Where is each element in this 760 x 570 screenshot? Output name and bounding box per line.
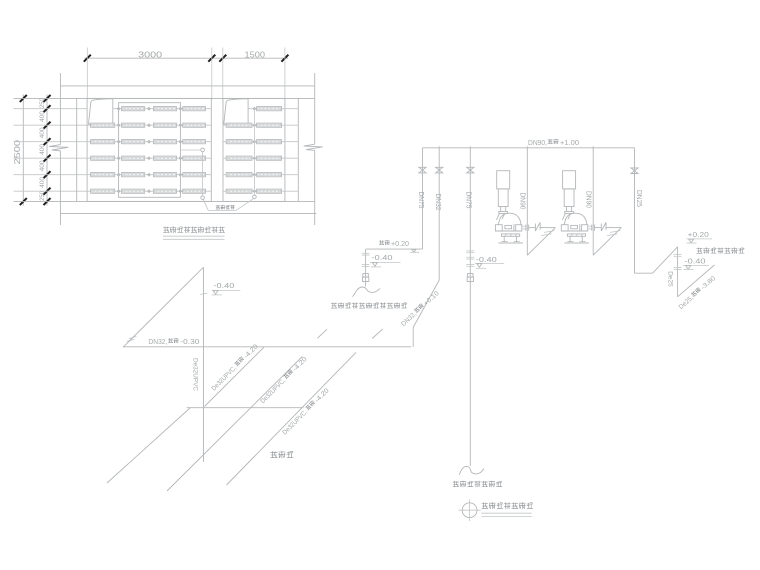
check valve <box>534 224 536 232</box>
svg-text:2500: 2500 <box>13 139 22 164</box>
plan title (cjk) with double underline <box>163 227 169 233</box>
svg-text:400: 400 <box>39 144 46 155</box>
distribution vertical De32UPVC <box>203 267 205 462</box>
label center +0.20 <box>379 240 384 244</box>
extension line <box>284 48 286 100</box>
right aeration panel outline <box>223 98 285 201</box>
blower motor <box>563 171 576 189</box>
label DN32 center +0.10 <box>400 289 441 328</box>
svg-text:De25,: De25, <box>678 294 695 311</box>
left aeration panel outline <box>87 98 211 201</box>
left panel branch vertical with node circles <box>180 149 200 151</box>
system title (cjk) with double underline <box>482 503 488 509</box>
svg-text:DN90: DN90 <box>584 191 591 208</box>
tank bottom wall inner line <box>14 200 315 202</box>
tank top wall outer line <box>60 85 314 87</box>
level mark <box>412 249 416 252</box>
dimension tick <box>44 188 51 195</box>
branch diagonal D3 <box>227 352 357 485</box>
blower outlet flange <box>513 224 515 231</box>
DN32 axon diagonal +0.10 <box>413 280 439 327</box>
blower volute casing <box>564 213 587 225</box>
air inlet corner plate right <box>224 99 248 124</box>
label bio contact oxidation tank (cjk) <box>453 481 459 487</box>
left dimension line 2500 <box>22 95 24 206</box>
extension line <box>222 48 224 100</box>
main air pipe DN90 <box>423 147 635 149</box>
blower base frame <box>502 234 520 236</box>
union joint <box>363 274 368 278</box>
outlet pipe to check valve <box>522 225 526 227</box>
label De32UPVC -4.20 no3 <box>281 387 331 437</box>
break ticks <box>544 231 554 233</box>
svg-text:400: 400 <box>39 127 46 138</box>
svg-text:DN75: DN75 <box>417 192 424 209</box>
label De32UPVC -4.20 no2 <box>259 355 309 405</box>
svg-text:DN32: DN32 <box>434 194 441 211</box>
svg-text:-0.40: -0.40 <box>213 281 234 290</box>
left dimension sub line <box>46 95 48 206</box>
blower base frame <box>567 234 585 236</box>
right wall outer vertical with break <box>314 73 316 144</box>
drain branch DN25 <box>634 148 636 273</box>
valve <box>419 167 426 173</box>
svg-text:400: 400 <box>39 111 46 122</box>
svg-text:De25: De25 <box>666 271 673 287</box>
header pipe center +0.20 <box>366 248 423 250</box>
svg-text:400: 400 <box>39 177 46 188</box>
label De32UPVC -4.20 no1 <box>210 343 260 393</box>
leader lines to label <box>203 199 208 210</box>
flex connection squiggle <box>353 287 380 297</box>
svg-text:DN75: DN75 <box>465 192 472 209</box>
lower horizontal pool line <box>187 407 304 409</box>
valve <box>467 167 474 173</box>
label to sedimentation tank sludge pipe (cjk) <box>697 248 703 253</box>
left wall vertical with break <box>59 73 61 145</box>
diffuser row 6 right panel <box>223 190 298 192</box>
svg-text:-0.40: -0.40 <box>685 257 706 266</box>
label De25 -3.80 <box>677 274 717 311</box>
svg-text:+0.10: +0.10 <box>423 290 441 308</box>
riser pipe DN75 no2 <box>469 148 471 466</box>
drop pipe to contact tank aeration <box>365 249 367 286</box>
svg-text:DN90: DN90 <box>519 193 526 210</box>
valve <box>631 168 638 174</box>
dimension tick <box>20 95 27 102</box>
dimension tick <box>281 55 288 62</box>
diffuser row 2 left panel <box>87 124 211 126</box>
tank bottom wall outer line <box>60 212 316 214</box>
dimension tick <box>20 198 27 205</box>
dimension tick <box>44 138 51 145</box>
label anoxic tank (cjk) <box>271 451 277 457</box>
dimension tick <box>208 55 215 62</box>
branch diagonal D1 <box>205 347 265 407</box>
break ticks on diagonal <box>127 339 135 341</box>
dimension tick <box>44 122 51 129</box>
air inlet corner plate left <box>89 99 113 124</box>
blower discharge riser DN90 <box>526 148 528 255</box>
extension line <box>211 48 213 100</box>
tank top wall inner line <box>14 97 315 99</box>
svg-text:+0.20: +0.20 <box>688 230 709 239</box>
drain drop pipe De25 <box>677 247 679 297</box>
rising diagonal to -0.40 point <box>123 267 203 347</box>
dimension tick <box>84 55 91 62</box>
svg-text:DN32,: DN32, <box>148 339 167 346</box>
dimension tick <box>44 155 51 162</box>
blower neck and flange <box>566 207 568 212</box>
diffuser row 1 right panel <box>248 108 298 110</box>
diffuser row 4 left panel <box>87 157 211 159</box>
junction node ticks on main <box>438 146 440 150</box>
branch diagonal D2 <box>167 357 302 492</box>
dimension tick <box>44 198 51 205</box>
svg-text:250: 250 <box>39 98 46 108</box>
svg-text:+1.00: +1.00 <box>560 138 579 147</box>
riser pipe DN32 <box>438 148 440 280</box>
svg-text:-0.40: -0.40 <box>476 255 497 264</box>
svg-text:De32UPVC: De32UPVC <box>191 358 198 391</box>
riser pipe DN75 no1 <box>422 148 424 249</box>
buried main DN32 -0.30 <box>123 346 411 348</box>
svg-text:3000: 3000 <box>138 50 163 59</box>
left wall inner vertical <box>76 98 78 201</box>
svg-text:-4.20: -4.20 <box>292 356 309 373</box>
svg-text:250: 250 <box>39 191 46 201</box>
blower motor <box>497 171 510 189</box>
svg-text:De32UPVC,: De32UPVC, <box>282 409 310 437</box>
second drop flanges/union on DN75 no2 <box>466 250 474 252</box>
blower outlet flange <box>579 224 581 231</box>
svg-text:DN90,: DN90, <box>528 138 547 147</box>
diffuser row 5 left panel <box>87 174 211 176</box>
label to bio contact oxidation tank aeration pipe (cjk) <box>331 303 337 308</box>
pool corner diagonal A <box>107 408 190 483</box>
drain axon diagonal De25 -3.80 <box>678 265 715 297</box>
outlet pipe to check valve <box>588 225 592 227</box>
label aeration branch pipe (cjk) <box>216 205 220 209</box>
diffuser row 5 right panel <box>223 174 298 176</box>
diffuser row 3 left panel <box>87 141 211 143</box>
valve <box>436 167 443 173</box>
axon diagonal to pool <box>593 228 621 256</box>
svg-text:-4.20: -4.20 <box>314 387 331 404</box>
diffuser row 1 left panel <box>113 108 212 110</box>
dimension tick <box>44 95 51 102</box>
extension line <box>86 48 88 99</box>
small tick on vertical <box>200 293 207 294</box>
svg-text:De32UPVC,: De32UPVC, <box>211 365 239 393</box>
blower neck and flange <box>500 207 502 212</box>
svg-text:DN25: DN25 <box>635 190 642 207</box>
diffuser row 4 right panel <box>223 157 298 159</box>
right panel branch vertical with node circle <box>253 109 255 195</box>
svg-text:-3.80: -3.80 <box>700 275 718 292</box>
diffuser row 2 right panel <box>223 124 298 126</box>
svg-text:-4.20: -4.20 <box>243 343 260 360</box>
dimension tick <box>44 171 51 178</box>
svg-text:-0.30: -0.30 <box>180 339 199 346</box>
dimension tick <box>44 105 51 112</box>
svg-text:DN32,: DN32, <box>400 311 418 328</box>
right wall inner vertical <box>297 98 299 201</box>
break ticks <box>610 231 620 233</box>
left panel manifold rectangle <box>119 103 181 198</box>
blower discharge riser DN90 <box>592 148 594 255</box>
blower inlet bend <box>562 213 565 220</box>
check valve <box>600 224 602 232</box>
blower volute casing <box>498 213 521 225</box>
reference circle symbol <box>462 503 477 518</box>
diffuser row 6 left panel <box>87 190 211 192</box>
svg-text:400: 400 <box>39 160 46 171</box>
axon diagonal to pool <box>527 228 555 256</box>
svg-text:De32UPVC,: De32UPVC, <box>260 377 288 405</box>
diffuser row 3 right panel <box>223 141 298 143</box>
svg-text:+0.20: +0.20 <box>391 239 409 248</box>
dimension tick <box>219 55 226 62</box>
flex squiggle bottom <box>459 466 484 474</box>
blower inlet bend <box>496 213 499 220</box>
svg-text:1500: 1500 <box>245 50 266 59</box>
dimension line 3000/1500 <box>85 57 289 59</box>
DN32 elbow vertical <box>412 327 414 346</box>
svg-text:-0.40: -0.40 <box>372 253 393 262</box>
axis extension lines left <box>14 108 88 110</box>
